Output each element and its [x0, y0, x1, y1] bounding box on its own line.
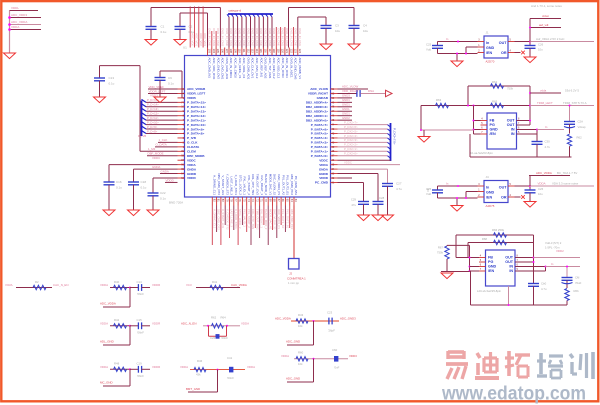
svg-text:VDDC: VDDC — [187, 158, 197, 162]
svg-text:ADC_CLK_OV1: ADC_CLK_OV1 — [251, 58, 255, 79]
svg-text:C4: C4 — [363, 24, 367, 28]
svg-text:P_D<10>: P_D<10> — [147, 120, 159, 124]
svg-text:PXL_VALID_1: PXL_VALID_1 — [243, 177, 247, 196]
svg-text:P_DATA<11>: P_DATA<11> — [187, 118, 206, 122]
svg-text:VDDR_LEFT: VDDR_LEFT — [149, 89, 166, 93]
svg-text:PG: PG — [490, 123, 495, 127]
svg-text:P_BATA<7>: P_BATA<7> — [311, 123, 328, 127]
svg-text:ADC_N_EN: ADC_N_EN — [181, 321, 196, 325]
svg-text:R66 250k: R66 250k — [492, 228, 505, 232]
svg-text:C1: C1 — [161, 25, 165, 29]
svg-text:103: 103 — [208, 49, 212, 54]
svg-text:PG: PG — [488, 260, 493, 264]
svg-text:VDDR_LEFT: VDDR_LEFT — [187, 92, 205, 96]
svg-text:ABF_CMD_PC2: ABF_CMD_PC2 — [290, 174, 294, 195]
svg-text:TRIM_LEFT: TRIM_LEFT — [537, 101, 553, 105]
svg-text:750k: 750k — [437, 251, 444, 255]
svg-text:Vdd: Vdd — [426, 48, 431, 52]
svg-text:VDDA: VDDA — [281, 354, 289, 358]
svg-text:DBF_MODB: DBF_MODB — [187, 154, 205, 158]
svg-text:DAC_VLOW_32: DAC_VLOW_32 — [273, 174, 277, 195]
svg-text:'0nF: '0nF — [334, 366, 340, 370]
svg-text:www.edatop.com: www.edatop.com — [441, 383, 586, 405]
svg-text:'00nF: '00nF — [227, 376, 234, 380]
svg-text:P_DATA<8>: P_DATA<8> — [187, 132, 204, 136]
svg-text:OVD_IN_CM0: OVD_IN_CM0 — [294, 28, 298, 46]
svg-text:ADC_IN_OVD4: ADC_IN_OVD4 — [285, 58, 289, 78]
svg-text:DB2_ADDR<2>: DB2_ADDR<2> — [306, 109, 328, 113]
svg-text:OVD_IN_CM0: OVD_IN_CM0 — [242, 28, 246, 46]
svg-text:ADC_VLOW: ADC_VLOW — [310, 87, 328, 91]
svg-text:R40: R40 — [114, 280, 120, 284]
svg-text:OVD_CMD_AD1: OVD_CMD_AD1 — [246, 58, 250, 80]
svg-text:R43: R43 — [298, 313, 304, 317]
svg-text:categor-d: categor-d — [229, 9, 242, 13]
svg-text:OVD_IN_CM2: OVD_IN_CM2 — [216, 28, 220, 46]
svg-text:OR: OR — [501, 196, 507, 200]
svg-text:L20-sb-SaV25-8pin: L20-sb-SaV25-8pin — [477, 289, 502, 293]
svg-text:'06nF: '06nF — [137, 374, 144, 378]
svg-text:P_DATA<9>: P_DATA<9> — [187, 127, 204, 131]
svg-text:CLEM: CLEM — [187, 150, 196, 154]
svg-text:1_CLK: 1_CLK — [159, 138, 168, 142]
svg-text:VDD_VREF: VDD_VREF — [149, 85, 165, 89]
svg-text:P_IVB: P_IVB — [187, 136, 197, 140]
svg-text:VDDB: VDDB — [187, 96, 197, 100]
svg-text:VDDA: VDDA — [100, 321, 108, 325]
svg-text:C28: C28 — [379, 196, 385, 200]
svg-text:GND: GND — [486, 191, 495, 195]
svg-text:P_DATA<10>: P_DATA<10> — [187, 123, 206, 127]
svg-text:Vdcap: Vdcap — [578, 125, 586, 129]
svg-text:COL_OTP_TM1: COL_OTP_TM1 — [251, 209, 255, 230]
svg-text:R42: R42 — [114, 318, 120, 322]
svg-text:OVD_IN_CM3: OVD_IN_CM3 — [272, 28, 276, 46]
svg-text:PAVA: PAVA — [6, 283, 13, 287]
svg-text:750k: 750k — [507, 87, 514, 91]
svg-text:10u: 10u — [363, 29, 368, 33]
svg-text:ADC_VDDL_C2: ADC_VDDL_C2 — [242, 58, 246, 79]
svg-text:P_DATA<15>: P_DATA<15> — [187, 101, 206, 105]
svg-text:OVD_IN_CM2: OVD_IN_CM2 — [268, 28, 272, 46]
svg-text:ADC_GND_CM3: ADC_GND_CM3 — [294, 58, 298, 80]
svg-text:O_DATA: O_DATA — [156, 143, 167, 147]
svg-text:10k: 10k — [298, 362, 303, 366]
svg-text:GND1: GND1 — [342, 103, 350, 107]
svg-text:C13: C13 — [109, 76, 115, 80]
svg-text:OVD_IN_CM3: OVD_IN_CM3 — [255, 28, 259, 46]
svg-text:P_DX2<2>: P_DX2<2> — [344, 143, 358, 147]
svg-text:GNDA: GNDA — [187, 167, 197, 171]
svg-text:A2D70: A2D70 — [486, 60, 495, 64]
svg-text:0.1u: 0.1u — [168, 82, 174, 86]
svg-text:J2: J2 — [289, 272, 292, 276]
svg-text:120: 120 — [281, 49, 285, 54]
svg-text:STCL_LOCK_2: STCL_LOCK_2 — [238, 175, 242, 195]
svg-text:LAST_LINE_3: LAST_LINE_3 — [230, 209, 234, 227]
svg-text:OVD_IN_CM2: OVD_IN_CM2 — [285, 28, 289, 46]
svg-text:ADC_VDDA: ADC_VDDA — [100, 302, 116, 306]
svg-text:10k: 10k — [298, 324, 303, 328]
svg-text:ADC_REF_IN1: ADC_REF_IN1 — [259, 58, 263, 78]
svg-text:ADC_VDD_OVD: ADC_VDD_OVD — [212, 58, 216, 80]
svg-text:4.7u: 4.7u — [396, 187, 402, 191]
svg-text:ADC_VDD_CL2: ADC_VDD_CL2 — [277, 58, 281, 79]
svg-text:ADC_VDDA: ADC_VDDA — [536, 171, 552, 175]
svg-text:GNDAB: GNDAB — [317, 96, 329, 100]
svg-text:C9: C9 — [168, 76, 172, 80]
svg-text:C19: C19 — [137, 362, 143, 366]
svg-text:VDDC: VDDC — [319, 158, 329, 162]
svg-text:VC3: VC3 — [186, 283, 192, 287]
svg-text:VDDA: VDDA — [180, 365, 188, 369]
svg-text:Cb0: Cb0 — [541, 282, 547, 286]
svg-text:P_DX2<7:0>: P_DX2<7:0> — [393, 128, 397, 145]
svg-text:BC_7DA 1.7 5V: BC_7DA 1.7 5V — [557, 171, 577, 175]
svg-text:VDDA: VDDA — [247, 365, 255, 369]
svg-text:X_LOAD_STC1: X_LOAD_STC1 — [234, 209, 238, 229]
svg-text:J1: J1 — [486, 31, 489, 35]
svg-text:C30: C30 — [545, 140, 551, 144]
svg-text:ABF_CMD_PC2: ABF_CMD_PC2 — [290, 209, 294, 230]
svg-text:0.1u: 0.1u — [141, 186, 147, 190]
svg-text:117: 117 — [268, 49, 272, 54]
svg-text:ADC_VD3: ADC_VD3 — [203, 33, 207, 46]
svg-text:R65: R65 — [492, 100, 498, 104]
svg-text:C23: C23 — [327, 311, 333, 315]
svg-text:PXL_START_2: PXL_START_2 — [247, 176, 251, 196]
svg-text:P_DX2<1>: P_DX2<1> — [344, 147, 358, 151]
svg-text:R41: R41 — [212, 280, 218, 284]
svg-text:X_LOAD_STC1: X_LOAD_STC1 — [234, 175, 238, 196]
svg-text:GVL_RIGHT_1: GVL_RIGHT_1 — [260, 209, 264, 228]
svg-text:P_BATA<4>: P_BATA<4> — [311, 136, 328, 140]
svg-text:106: 106 — [221, 49, 225, 54]
svg-text:And 1.7V-1, some notes: And 1.7V-1, some notes — [531, 4, 562, 8]
svg-text:P_D<11>: P_D<11> — [147, 116, 159, 120]
svg-text:PC_CMD: PC_CMD — [315, 181, 329, 185]
svg-text:ADC_IN_CMD2: ADC_IN_CMD2 — [234, 58, 238, 79]
svg-text:C25: C25 — [426, 42, 432, 46]
svg-text:GNDA: GNDA — [319, 167, 329, 171]
svg-text:123: 123 — [294, 49, 298, 54]
svg-text:C3: C3 — [335, 24, 339, 28]
svg-text:C2A: C2A — [578, 120, 584, 124]
svg-text:VDDA: VDDA — [187, 163, 197, 167]
svg-text:VDDR: VDDR — [152, 283, 160, 287]
svg-text:P_BATA<3>: P_BATA<3> — [311, 141, 328, 145]
svg-text:V_START_LN1: V_START_LN1 — [221, 209, 225, 228]
svg-text:C29: C29 — [351, 198, 357, 202]
svg-text:PXL_VALID_1: PXL_VALID_1 — [243, 209, 247, 227]
svg-text:OVD_IN_CM1: OVD_IN_CM1 — [281, 28, 285, 46]
svg-text:P_D<9>: P_D<9> — [147, 125, 158, 129]
svg-text:P_DATA<14>: P_DATA<14> — [187, 105, 206, 109]
svg-text:VDDA: VDDA — [100, 283, 108, 287]
svg-text:124: 124 — [298, 49, 302, 54]
svg-text:119: 119 — [276, 49, 280, 54]
svg-text:43k: 43k — [196, 372, 201, 376]
svg-text:VDDA: VDDA — [538, 181, 546, 185]
svg-text:10u: 10u — [538, 48, 543, 52]
svg-text:GND: GND — [490, 128, 499, 132]
svg-text:4.7u: 4.7u — [541, 287, 547, 291]
svg-text:OR: OR — [501, 51, 507, 55]
svg-text:GND: GND — [486, 46, 495, 50]
svg-text:OUT: OUT — [499, 186, 508, 190]
svg-text:R62: R62 — [211, 315, 217, 319]
svg-text:R62: R62 — [577, 136, 583, 140]
svg-text:P_BATA<2>: P_BATA<2> — [311, 145, 328, 149]
svg-text:TMB_OUT_GV2: TMB_OUT_GV2 — [256, 174, 260, 196]
svg-text:VDDC: VDDC — [152, 156, 160, 160]
svg-text:OVD_IN_CM0: OVD_IN_CM0 — [259, 28, 263, 46]
svg-text:OVD_GND_AD3: OVD_GND_AD3 — [225, 58, 229, 80]
svg-text:ADC_VDD3: ADC_VDD3 — [11, 13, 27, 17]
svg-text:VDDD: VDDD — [319, 176, 329, 180]
svg-text:GNDD: GNDD — [319, 172, 329, 176]
svg-text:P_D<13>: P_D<13> — [147, 107, 159, 111]
svg-text:FB: FB — [490, 119, 495, 123]
svg-text:Auf_VDLb 2.5V 2 buC: Auf_VDLb 2.5V 2 buC — [536, 37, 564, 41]
svg-text:OUT: OUT — [505, 256, 514, 260]
svg-text:R48: R48 — [114, 362, 120, 366]
svg-text:R68: R68 — [482, 237, 488, 241]
svg-text:IN: IN — [509, 269, 513, 273]
svg-text:OUT: OUT — [499, 41, 508, 45]
svg-text:P_DX2<6>: P_DX2<6> — [344, 125, 358, 129]
svg-text:VDDA: VDDA — [11, 25, 19, 29]
svg-text:ADC_IN_CMD1: ADC_IN_CMD1 — [229, 58, 233, 79]
svg-text:112: 112 — [246, 49, 250, 54]
svg-text:R46: R46 — [197, 359, 203, 363]
svg-text:CAC_N_EN: CAC_N_EN — [53, 283, 68, 287]
svg-text:ADC_GNDL_V1: ADC_GNDL_V1 — [238, 58, 242, 79]
svg-text:H_DRING_CL1: H_DRING_CL1 — [212, 209, 216, 229]
svg-text:ADC_GND: ADC_GND — [286, 377, 300, 381]
svg-text:DNA: DNA — [368, 89, 374, 93]
svg-text:ADC_VRIGB: ADC_VRIGB — [187, 87, 206, 91]
svg-text:P_DX2<0>: P_DX2<0> — [344, 152, 358, 156]
svg-text:R60: R60 — [298, 351, 304, 355]
svg-text:BND 720A: BND 720A — [169, 201, 183, 205]
svg-text:vdda: vdda — [540, 88, 547, 92]
svg-text:C16: C16 — [116, 180, 122, 184]
svg-text:10u: 10u — [538, 192, 543, 196]
svg-text:GND1: GND1 — [342, 112, 350, 116]
svg-text:OVD_IN_CM3: OVD_IN_CM3 — [289, 28, 293, 46]
svg-text:TRIM_STP 5.7V A: TRIM_STP 5.7V A — [563, 101, 587, 105]
svg-text:'06nF: '06nF — [137, 330, 144, 334]
svg-text:P_DX2<7>: P_DX2<7> — [344, 120, 358, 124]
svg-text:108: 108 — [229, 49, 233, 54]
svg-text:PXL_START_2: PXL_START_2 — [247, 209, 251, 228]
svg-text:1 mm pp: 1 mm pp — [288, 281, 299, 285]
svg-text:ADC_GND3: ADC_GND3 — [340, 317, 356, 321]
svg-text:C41: C41 — [227, 356, 233, 360]
svg-text:OVD_IN_CM0: OVD_IN_CM0 — [276, 28, 280, 46]
svg-text:C26: C26 — [538, 42, 544, 46]
svg-text:118: 118 — [272, 49, 276, 54]
svg-text:O_CLK: O_CLK — [187, 141, 198, 145]
svg-text:116: 116 — [264, 49, 268, 54]
svg-text:P_BATA<6>: P_BATA<6> — [311, 127, 328, 131]
svg-text:P_BATA<5>: P_BATA<5> — [311, 132, 328, 136]
svg-text:/EN: /EN — [486, 51, 492, 55]
svg-text:ADC_VD2: ADC_VD2 — [199, 33, 203, 46]
svg-text:105: 105 — [216, 49, 220, 54]
svg-text:C26: C26 — [538, 187, 544, 191]
svg-text:P_DATA<12>: P_DATA<12> — [187, 114, 206, 118]
svg-text:CM: CM — [575, 276, 580, 280]
svg-text:IN: IN — [509, 265, 513, 269]
svg-text:GNDD: GNDD — [187, 172, 197, 176]
svg-text:VDDR: VDDR — [152, 321, 160, 325]
svg-text:ADC_VD0: ADC_VD0 — [190, 33, 194, 46]
svg-text:IN: IN — [511, 132, 515, 136]
svg-text:DBC_CMD_OT2: DBC_CMD_OT2 — [217, 173, 221, 195]
svg-text:OVD_REF_AD2: OVD_REF_AD2 — [264, 58, 268, 79]
svg-text:P_D<8>: P_D<8> — [147, 129, 158, 133]
svg-text:C14: C14 — [137, 280, 143, 284]
svg-text:P_BATA<1>: P_BATA<1> — [311, 150, 328, 154]
svg-text:121: 121 — [285, 49, 289, 54]
svg-text:10u: 10u — [335, 29, 340, 33]
svg-text:'26pF: '26pF — [328, 329, 335, 333]
svg-text:PXL_OUT1_A2: PXL_OUT1_A2 — [281, 175, 285, 195]
svg-text:CLDATA: CLDATA — [187, 145, 200, 149]
svg-text:0.1u: 0.1u — [160, 197, 166, 201]
svg-text:In: In — [446, 181, 449, 185]
svg-text:OVD_IN_CM2: OVD_IN_CM2 — [251, 28, 255, 46]
svg-text:ADC_IN_OVD3: ADC_IN_OVD3 — [281, 58, 285, 78]
svg-text:VDDL: VDDL — [11, 6, 19, 10]
svg-text:OVD_IN_CM1: OVD_IN_CM1 — [298, 28, 302, 46]
svg-text:OUT: OUT — [507, 119, 516, 123]
svg-text:ADC_CMD_IN1: ADC_CMD_IN1 — [208, 58, 212, 79]
svg-text:/EN: /EN — [486, 196, 492, 200]
svg-text:GND1: GND1 — [342, 98, 350, 102]
svg-text:R6b: R6b — [574, 289, 580, 293]
svg-text:OUT: OUT — [507, 123, 516, 127]
svg-text:107: 107 — [225, 49, 229, 54]
svg-text:P_DX2<4>: P_DX2<4> — [344, 134, 358, 138]
svg-text:OVD_IN_CM2: OVD_IN_CM2 — [233, 28, 237, 46]
svg-text:4.7u: 4.7u — [545, 145, 551, 149]
svg-text:ADC_TST_CM1: ADC_TST_CM1 — [268, 58, 272, 79]
svg-text:FB: FB — [488, 256, 493, 260]
svg-text:70uF: 70uF — [575, 281, 582, 285]
svg-text:P_D<12>: P_D<12> — [147, 112, 159, 116]
svg-text:In: In — [551, 262, 554, 266]
svg-text:CAC_VDDA: CAC_VDDA — [231, 283, 247, 287]
svg-text:114: 114 — [255, 49, 259, 54]
svg-text:ADC_VDDA: ADC_VDDA — [11, 20, 27, 24]
svg-text:TMB_OUT_GV2: TMB_OUT_GV2 — [255, 209, 259, 230]
svg-text:STCL_LOCK_2: STCL_LOCK_2 — [238, 209, 242, 229]
svg-text:A4D75: A4D75 — [486, 204, 495, 208]
svg-text:VDDA: VDDA — [100, 365, 108, 369]
svg-text:OVD_IN_CM1: OVD_IN_CM1 — [229, 28, 233, 46]
svg-text:BLACK_MOD_2: BLACK_MOD_2 — [264, 174, 268, 195]
svg-text:GNDA: GNDA — [161, 169, 169, 173]
svg-text:LAST_LINE_3: LAST_LINE_3 — [230, 177, 234, 196]
svg-text:OVD_IN_CM3: OVD_IN_CM3 — [221, 28, 225, 46]
svg-text:C27: C27 — [396, 182, 402, 186]
svg-text:47u: 47u — [351, 203, 356, 207]
svg-text:ADC_VDDA: ADC_VDDA — [275, 317, 291, 321]
svg-text:P_DX2<5>: P_DX2<5> — [344, 129, 358, 133]
svg-text:PXL_OUT2_B1: PXL_OUT2_B1 — [286, 175, 290, 195]
svg-text:VDDC: VDDC — [344, 160, 352, 164]
svg-text:DBF_MODE: DBF_MODE — [148, 152, 164, 156]
svg-text:VDDR: VDDR — [152, 365, 160, 369]
svg-text:OVD_IN_CM3: OVD_IN_CM3 — [238, 28, 242, 46]
svg-text:J4: J4 — [486, 175, 489, 179]
svg-text:ADC_GND_CL2: ADC_GND_CL2 — [272, 58, 276, 79]
svg-text:OVD_IN_CM1: OVD_IN_CM1 — [246, 28, 250, 46]
svg-text:0.1u: 0.1u — [161, 30, 167, 34]
svg-text:P_D<14>: P_D<14> — [147, 103, 159, 107]
svg-text:DAC_VLOW_32: DAC_VLOW_32 — [273, 209, 277, 230]
svg-text:C15: C15 — [137, 318, 143, 322]
svg-text:VDD3: VDD3 — [349, 354, 357, 358]
svg-text:C25: C25 — [426, 187, 432, 191]
svg-text:IN: IN — [511, 128, 515, 132]
svg-text:OVD_IN_CM0: OVD_IN_CM0 — [225, 28, 229, 46]
svg-text:MOD3_DAC_V1: MOD3_DAC_V1 — [268, 174, 272, 196]
svg-text:In: In — [545, 125, 548, 129]
svg-text:111: 111 — [242, 49, 246, 53]
svg-text:P_DX2<3>: P_DX2<3> — [344, 138, 358, 142]
svg-text:DB2_ADDR<1>: DB2_ADDR<1> — [306, 114, 328, 118]
svg-text:VDD2: VDD2 — [556, 249, 564, 253]
svg-text:ADC_OVD_CL2: ADC_OVD_CL2 — [255, 58, 259, 79]
svg-text:BLACK_MOD_2: BLACK_MOD_2 — [264, 209, 268, 230]
svg-text:ADC_GND_OV2: ADC_GND_OV2 — [216, 58, 220, 80]
svg-text:PXL_OUT2_B1: PXL_OUT2_B1 — [286, 209, 290, 229]
svg-text:C26: C26 — [210, 336, 216, 340]
svg-text:OVD_IN_CM1: OVD_IN_CM1 — [264, 28, 268, 46]
svg-text:OVD_IN_ADC1: OVD_IN_ADC1 — [289, 58, 293, 78]
svg-text:VDDR_RIGHT: VDDR_RIGHT — [308, 92, 328, 96]
svg-text:PC_CMD_AB1: PC_CMD_AB1 — [294, 176, 298, 196]
svg-text:C60: C60 — [332, 348, 338, 352]
svg-text:CONMTREA 1: CONMTREA 1 — [287, 277, 306, 281]
svg-text:DB2_ADDR<3>: DB2_ADDR<3> — [306, 105, 328, 109]
svg-text:ADC_VD1: ADC_VD1 — [195, 33, 199, 46]
svg-text:DAC_VDD3_P1: DAC_VDD3_P1 — [277, 174, 281, 195]
svg-text:auf_vdl: auf_vdl — [539, 23, 549, 27]
svg-text:d-bat: d-bat — [542, 14, 549, 18]
svg-text:104: 104 — [212, 49, 216, 54]
svg-text:V_START_LN1: V_START_LN1 — [221, 175, 225, 195]
svg-text:PXL_OUT1_A2: PXL_OUT1_A2 — [281, 209, 285, 229]
svg-text:C22: C22 — [160, 191, 166, 195]
svg-text:110: 110 — [238, 49, 242, 54]
svg-text:VDDA: VDDA — [241, 321, 249, 325]
svg-text:C18: C18 — [141, 180, 147, 184]
svg-text:Vdd: Vdd — [426, 192, 431, 196]
svg-text:R63: R63 — [436, 98, 442, 102]
svg-text:GND2: GND2 — [342, 116, 350, 120]
svg-text:P_BATA<0>: P_BATA<0> — [311, 154, 328, 158]
svg-text:109: 109 — [233, 49, 237, 54]
svg-text:Y_CMOCK_ST2: Y_CMOCK_ST2 — [225, 174, 229, 196]
svg-text:GNDA: GNDA — [152, 165, 160, 169]
svg-text:GVL_RIGHT_1: GVL_RIGHT_1 — [260, 175, 264, 195]
svg-text:Y_CMOCK_ST2: Y_CMOCK_ST2 — [225, 209, 229, 230]
